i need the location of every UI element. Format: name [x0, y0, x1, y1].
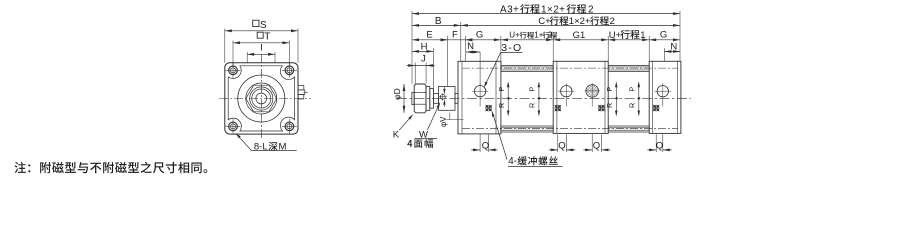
svg-text:φV: φV	[439, 116, 448, 127]
svg-text:R: R	[605, 103, 614, 108]
svg-text:P: P	[528, 87, 537, 92]
svg-text:Q: Q	[558, 140, 565, 151]
svg-text:R: R	[528, 103, 537, 108]
svg-text:1: 1	[640, 30, 645, 41]
svg-text:3-O: 3-O	[501, 42, 522, 54]
svg-text:1+: 1+	[534, 31, 543, 40]
svg-text:Q: Q	[656, 140, 663, 151]
svg-text:P: P	[628, 87, 637, 92]
svg-text:P: P	[497, 87, 506, 92]
svg-text:1×2+: 1×2+	[569, 16, 591, 27]
svg-text:2: 2	[548, 31, 553, 40]
svg-text:R: R	[497, 103, 506, 108]
svg-text:C+: C+	[538, 16, 551, 27]
svg-text:R: R	[628, 103, 637, 108]
svg-text:I: I	[260, 43, 263, 54]
svg-text:U+: U+	[609, 30, 622, 41]
svg-text:8-L: 8-L	[254, 142, 268, 153]
svg-text:Q: Q	[593, 140, 600, 151]
svg-text:N: N	[670, 41, 677, 52]
svg-text:J: J	[421, 54, 426, 65]
svg-text:P: P	[605, 87, 614, 92]
svg-text:E: E	[426, 29, 432, 40]
svg-text:U+: U+	[509, 31, 520, 40]
svg-text:Q: Q	[482, 140, 489, 151]
svg-text:T: T	[264, 32, 270, 43]
svg-text:F: F	[452, 29, 458, 40]
svg-text:G1: G1	[573, 30, 586, 41]
svg-text:A3+: A3+	[500, 4, 519, 15]
svg-text:M: M	[279, 142, 287, 153]
svg-text:4-: 4-	[508, 156, 517, 167]
svg-text:2: 2	[610, 16, 615, 27]
svg-text:1×2+: 1×2+	[541, 4, 565, 15]
svg-text:2: 2	[588, 4, 594, 15]
svg-text:K: K	[393, 130, 400, 141]
svg-text:φD: φD	[392, 88, 402, 100]
svg-text:G: G	[476, 29, 483, 40]
svg-text:G: G	[660, 30, 667, 41]
svg-text:B: B	[435, 16, 442, 27]
svg-text:H: H	[421, 41, 428, 52]
svg-text:S: S	[260, 20, 267, 31]
svg-text:N: N	[467, 41, 474, 52]
